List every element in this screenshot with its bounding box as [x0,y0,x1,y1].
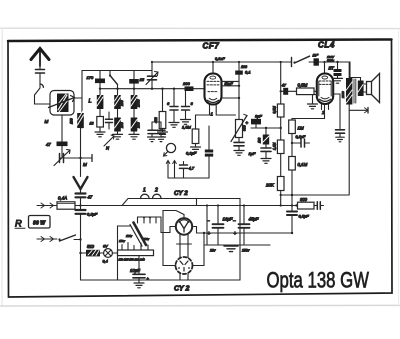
capacitor 10uF [138,256,140,274]
voltage selector box left edge [117,226,119,280]
heater loop 2 [153,194,162,198]
voltage selector arm [134,223,147,246]
capacitor 0,1uF (coupling) [292,142,301,144]
grid line [100,88,205,90]
capacitor 1uF [261,147,271,149]
capacitor 6 b [185,91,187,106]
resistor 432 [162,89,164,112]
scan page edge top [0,27,400,29]
resistor 13 [97,117,104,128]
coil L [97,95,104,109]
svg-text:10μF: 10μF [130,268,140,273]
coil 100 (AF choke) [265,128,267,135]
resistor 0,5M (grid CL4) [297,88,315,95]
ground (10uF) [138,280,140,283]
svg-text:CF7: CF7 [203,42,220,51]
svg-text:0,1μF: 0,1μF [87,212,98,217]
svg-text:10⁰: 10⁰ [313,54,319,58]
svg-text:CL4: CL4 [318,41,335,50]
antenna coil core [57,94,69,113]
svg-text:0,1M: 0,1M [298,162,308,167]
feedback line [281,194,349,196]
antenna arrow [31,49,49,60]
svg-text:100: 100 [241,65,247,69]
tube CF7 [212,62,214,74]
svg-text:250v: 250v [241,249,250,253]
wire selector top [138,217,177,233]
resistor 0,1M [289,157,296,171]
electrolytic 16uF [217,206,219,225]
potentiometer 500 [236,120,243,138]
heater loop 1 [141,194,150,198]
svg-text:6V: 6V [103,245,108,249]
AF line [168,177,209,179]
svg-text:1,5M: 1,5M [182,125,192,130]
rectifier CY2 (bottom, socket view) [176,257,193,274]
svg-text:300: 300 [300,197,308,202]
svg-text:100: 100 [258,137,262,143]
wire primary bottom [348,105,350,196]
mains plug upper pin [37,205,57,207]
node lamp line [79,252,81,254]
node trimmer join [79,157,81,159]
svg-text:510: 510 [87,244,95,249]
ground (150b) [129,133,139,135]
resistor 20K [277,177,284,191]
svg-text:500: 500 [243,125,247,131]
capacitor 15 [133,71,135,80]
wire heater drop [239,199,241,281]
resistor 1M [289,120,296,134]
wire CF7 anode [222,85,240,87]
svg-text:2: 2 [154,188,158,194]
svg-text:4,7: 4,7 [189,166,195,171]
svg-text:0,5M: 0,5M [273,106,277,114]
extra speaker tap [349,109,368,111]
band switch [109,71,111,76]
svg-text:47: 47 [282,83,287,88]
coil 100 (antenna secondary) [77,113,84,128]
svg-text:0,5M: 0,5M [298,83,308,88]
svg-text:CY 2: CY 2 [174,190,188,197]
output transformer secondary [358,81,364,97]
transformer core [353,79,355,103]
capacitor 0,2uF [208,156,210,178]
capacitor 170 [99,71,101,79]
ground (CL4 grid) [313,95,317,104]
svg-text:1500: 1500 [137,99,141,107]
wire down to trimmer [61,146,63,158]
wire to output transformer [350,62,361,81]
svg-text:110 125 150 220 240: 110 125 150 220 240 [119,258,146,262]
CY2 bottom stubs [179,274,181,280]
mains on-off switch [293,61,295,63]
scan page edge left [1,28,3,306]
capacitor (IF bypass b) [160,122,162,130]
svg-text:8μF: 8μF [255,114,262,119]
svg-text:1: 1 [143,188,146,194]
ground (1,5M) [191,146,201,148]
svg-text:M: M [45,119,49,124]
svg-text:20v: 20v [209,249,216,253]
resistor 1,1M [277,140,284,154]
wire mains bus [75,205,297,207]
tube CL4 pins [321,104,323,110]
voltage selector strip [118,250,154,256]
coil 200 [114,95,121,109]
svg-text:0,2μF: 0,2μF [186,151,197,156]
wire CY2 anode [163,211,184,266]
wire antenna down [39,66,41,70]
coil 1500 [131,95,138,109]
electrolytic 45uF [243,206,245,225]
earth arrow symbol [74,177,88,189]
output transformer primary [346,78,352,105]
svg-text:100: 100 [70,118,74,124]
trimmer (AVC) riser [151,62,153,76]
svg-text:90 W: 90 W [33,221,46,227]
ground (1uF) [261,158,271,160]
power rating box 90W [29,216,51,229]
scan page edge bottom [0,304,400,307]
antenna coil loop [50,91,74,116]
wire cathode to pot [216,111,235,115]
ground (432) [158,131,168,133]
svg-text:0,4A: 0,4A [58,196,67,201]
svg-text:0,1μF: 0,1μF [296,135,306,139]
line filter capacitor [337,62,339,69]
capacitor 47 (mains filter) [76,192,86,194]
svg-text:15: 15 [140,77,145,82]
wire bottom return [81,279,241,281]
CY2 legs [179,234,181,248]
coil 150 a [114,118,121,132]
svg-text:1M: 1M [298,126,304,131]
svg-text:50μF: 50μF [225,82,234,86]
svg-text:+: + [234,231,237,237]
pickup jack [166,143,175,152]
svg-text:CY 2: CY 2 [174,286,190,293]
wire box top [82,70,152,72]
svg-text:16μF: 16μF [223,217,233,222]
wire negative rail [205,244,270,246]
svg-text:110v: 110v [119,239,125,243]
svg-text:L: L [89,99,92,105]
ground (main) [224,245,238,247]
ground (150a) [113,133,123,135]
svg-text:45μF: 45μF [249,217,259,222]
wire CF7 screen [222,80,240,82]
node mains bus [79,204,81,206]
capacitor (CL4 anode) [333,94,340,130]
mains switch blade [58,238,60,240]
svg-text:0,1nF: 0,1nF [215,57,225,61]
mains switch terminal [291,58,293,67]
wire CY2 cathode right [192,227,292,234]
HT dropper chain [280,62,282,104]
svg-text:1,1M: 1,1M [273,142,277,150]
svg-text:0,5μF: 0,5μF [299,214,310,219]
capacitor 47 (coupling) [281,90,297,92]
antenna coupling capacitor [36,69,45,71]
capacitor 47 (antenna) [57,142,68,147]
wire CL4 cathode net [292,104,325,120]
antenna coil trimmer arrow [49,98,75,108]
capacitor (osc padder) [108,112,110,119]
svg-text:50Hz: 50Hz [327,59,335,63]
svg-text:200: 200 [182,81,190,86]
voltage selector pins [121,245,123,251]
capacitor 10n (switch) [314,58,319,65]
svg-text:+: + [246,121,249,126]
wire box left vertical [81,71,83,129]
rectifier CY2 (top) [176,218,192,234]
ground (cathode) [234,150,244,152]
fuse 0,4A [57,202,75,209]
border frame [8,40,392,298]
svg-text:0,4: 0,4 [103,260,108,264]
scan page edge right [397,28,399,306]
wire CF7 cathode [222,97,240,99]
wire coil100 to arrow [80,128,82,177]
resistor 1,5M [196,111,210,129]
resistor 300 [295,204,297,206]
svg-text:170: 170 [87,75,94,80]
ground (6b) [181,119,191,121]
wire CY2 bottom right [193,233,204,266]
heater line [133,198,240,200]
barretter 510 [86,250,100,257]
svg-text:13: 13 [90,122,94,126]
HT bus top [152,61,292,63]
tube CF7 pins [209,105,211,111]
svg-text:Opta 138 GW: Opta 138 GW [267,268,370,293]
capacitor 0,1uF (mains) [76,209,86,211]
svg-text:−: − [233,219,236,225]
coil 150 b [131,118,138,132]
capacitor 4,7 [183,162,185,165]
electrolytic 8uF [251,119,261,125]
trimmer arrow (osc) [104,136,114,146]
svg-text:125v: 125v [126,234,133,238]
svg-text:+: + [208,231,211,237]
capacitor (cathode) [234,141,244,143]
svg-text:200: 200 [120,100,124,107]
svg-text:150: 150 [137,122,141,128]
capacitor (IF bypass a) [151,122,153,130]
trimmer capacitor (wave band) [59,154,61,163]
border frame top thick edge [8,40,392,42]
svg-text:2000: 2000 [341,91,345,99]
tube CL4 [324,62,326,74]
ground (6a) [169,122,179,124]
capacitor 0,5uF [291,206,293,212]
svg-text:47: 47 [88,195,93,200]
wire heater to bus jog [196,199,198,206]
wire coil to box [74,97,82,99]
capacitor 200 (grid) [185,86,194,91]
dial lamp [100,252,104,254]
svg-text:47: 47 [46,142,51,147]
wire screen feed [251,127,281,129]
speaker [367,82,372,95]
wire heater line riser [122,199,133,206]
ground (coil L) [95,131,105,133]
capacitor 6 a [173,89,175,107]
pickup contacts [167,161,169,178]
ground (anode cap) [336,136,344,138]
svg-text:M: M [83,162,87,167]
capacitor 0,1 (HT) [238,62,240,71]
svg-text:20K: 20K [265,183,275,188]
svg-text:1μF: 1μF [249,151,256,156]
antenna jack [40,84,43,87]
mains plug lower pin [37,238,57,240]
svg-text:150: 150 [120,122,124,128]
wire to antenna coil [35,88,51,104]
svg-text:0,1: 0,1 [245,70,251,75]
voltage selector top pins [137,217,139,223]
wire coil bottom down [61,115,63,142]
resistor 0,5M (vertical) [277,104,284,117]
